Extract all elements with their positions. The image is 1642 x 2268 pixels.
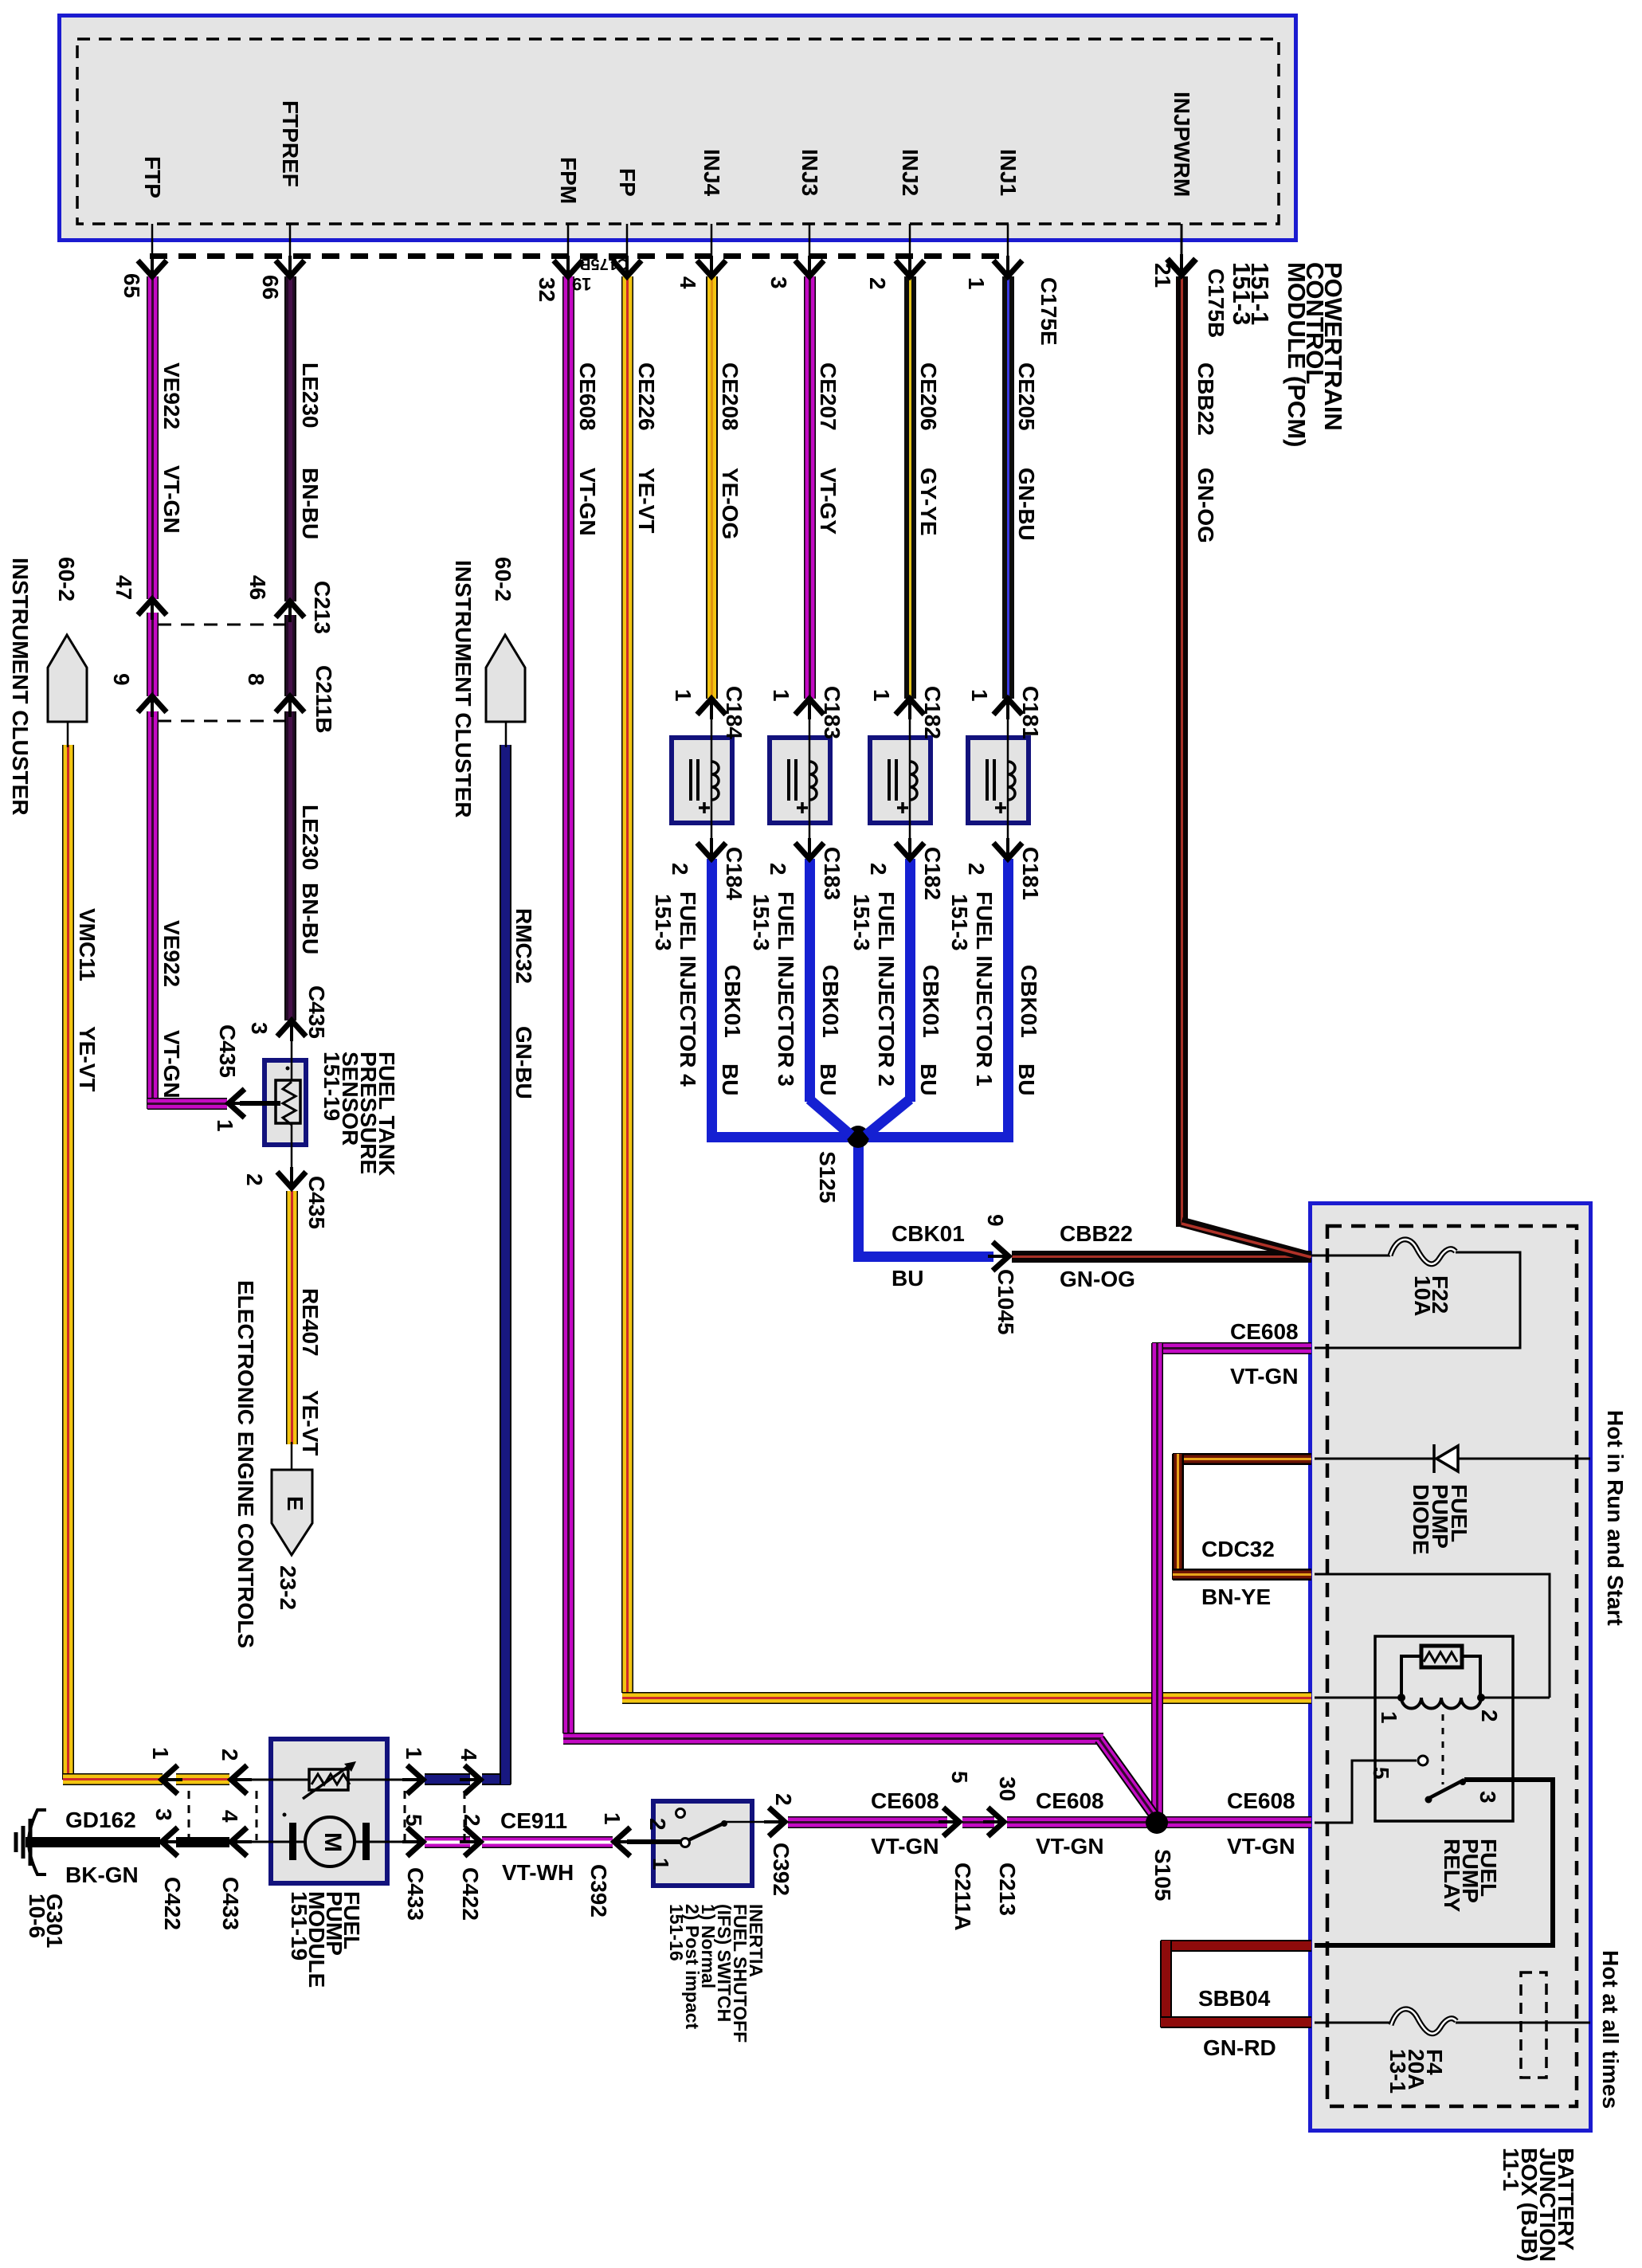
label injector 2 page 151-3 — [852, 894, 870, 951]
connector C392 pin 1 arrow — [614, 1827, 630, 1856]
label BJB caption — [1502, 2148, 1575, 2262]
sensor pin 3 arrow C435 — [277, 1020, 306, 1036]
inertia fuel shutoff IFS switch box — [651, 1799, 754, 1888]
splice S105 — [1146, 1812, 1168, 1834]
label wire label CBK01 — [892, 1225, 965, 1243]
label label 60-2 right — [494, 557, 511, 601]
label wire label BK-GN — [65, 1866, 139, 1884]
BJB CE226 to relay coil pin1 line — [1315, 1697, 1401, 1699]
label pin 9 C1045 — [986, 1214, 1004, 1227]
label label hot at all times — [1601, 1950, 1619, 2109]
label pin 65 — [123, 273, 140, 298]
label injector 4 pin 2 — [671, 863, 688, 875]
wire CBK01 BU injector 4 — [707, 859, 717, 1142]
fuel level sender symbol — [309, 1769, 348, 1790]
label wire label CE608 FPM — [578, 362, 596, 431]
wire CBK01 BU injector 2 — [905, 859, 915, 1102]
connector C422 pin 4 arrow — [464, 1765, 480, 1794]
wire CE608 VT-GN from F22 out of BJB — [1152, 1342, 1311, 1354]
label wire label VT-GN b — [1036, 1838, 1104, 1855]
relay actuation dashed link — [1442, 1714, 1444, 1784]
instrument cluster pentagon 2 — [486, 635, 525, 722]
label injector 1 wire CBK01 — [1020, 965, 1037, 1038]
label pin 66 — [261, 275, 279, 300]
connector C211A pin 5 arrow — [943, 1808, 959, 1836]
label injector 3 wire BU — [819, 1063, 837, 1095]
label connector C422 right — [461, 1867, 479, 1921]
label pump pin 1 — [405, 1747, 422, 1760]
label wire label CE207 — [819, 362, 837, 431]
connector C213 pin 47 arrow — [138, 599, 167, 615]
label relay pin 2 — [1480, 1710, 1498, 1722]
label pump pin 2 — [463, 1814, 480, 1827]
label wire label BU — [892, 1270, 923, 1287]
label wire label YE-VT VMC11 — [78, 1026, 96, 1091]
label ground G301 label — [28, 1894, 63, 1949]
label injector 2 pin 1 — [872, 689, 890, 702]
sensor pin 2 arrow C435 — [277, 1172, 306, 1188]
label connector C433 label — [221, 1877, 239, 1930]
connector C1045 pin 9 arrow — [993, 1242, 1009, 1271]
relay pin 5 feed — [1315, 1761, 1417, 1823]
fuel injector 4 pin 2 arrow — [697, 843, 726, 859]
label connector C433 right — [406, 1867, 424, 1921]
battery feed dashed box — [1521, 1972, 1546, 2078]
wire CBK01 BU from S125 down — [853, 1135, 864, 1252]
label injector 3 connector C183 top — [823, 686, 841, 739]
label pin 2 C435 — [245, 1173, 263, 1186]
label wire label VT-WH — [502, 1864, 574, 1882]
label wire label VE922 lower — [163, 920, 180, 987]
fuel injector 4 coil symbol — [689, 759, 692, 801]
wire CE226 YE-VT (FP) horizontal to BJB — [622, 1692, 1311, 1704]
label connector C1045 — [997, 1269, 1014, 1335]
label wire label CE206 — [919, 362, 937, 431]
label connector C211B — [315, 665, 332, 734]
BJB F22 circuit lines — [1311, 1255, 1390, 1257]
label fuel pump relay label — [1443, 1839, 1498, 1912]
label label electronic engine controls — [237, 1280, 254, 1648]
wire RE407 YE-VT sensor to EEC — [286, 1191, 298, 1444]
fuel injector 1 pin 2 arrow — [993, 843, 1022, 859]
fuel injector 3 box — [767, 735, 833, 825]
fuel injector 4 pin 1 arrow — [697, 699, 726, 715]
label pin 2 C392 — [774, 1793, 792, 1806]
label injector 2 connector C182 top — [923, 686, 941, 739]
label wire label CBB22 — [1197, 362, 1214, 436]
label PCM pin INJ4 — [703, 149, 720, 196]
label injector 1 pin 2 — [967, 863, 985, 875]
wire CE226 YE-VT (FP) vertical — [621, 276, 633, 1693]
label wire label RMC32 — [515, 908, 532, 984]
label PCM pin FTP — [143, 156, 161, 198]
fuel injector 1 box — [966, 735, 1031, 825]
label wire label CE911 — [500, 1812, 567, 1830]
label pin 3 C435 — [250, 1022, 268, 1035]
label injector 2 name — [877, 891, 895, 1087]
label wire label RE407 — [301, 1288, 319, 1357]
wire CBB22 GN-OG horizontal C1045 to BJB — [1012, 1251, 1311, 1263]
label fuel pump diode label — [1411, 1484, 1468, 1555]
wire CE608 VT-GN (FPM) vertical — [562, 276, 574, 1733]
label connector C175B — [1207, 268, 1225, 338]
label injector 1 wire BU — [1017, 1063, 1035, 1095]
wire GD162 BK-GN ground — [25, 1837, 160, 1847]
label pin 5 C211A — [950, 1771, 968, 1784]
label pin 2 C433 — [221, 1749, 238, 1761]
label wire label VE922 — [163, 362, 180, 429]
label wire label VT-GY — [819, 468, 837, 535]
label wire label CDC32 — [1201, 1541, 1275, 1558]
label PCM pin INJ2 — [901, 149, 919, 196]
label splice S105 label — [1154, 1849, 1171, 1901]
label wire label GN-BU — [1017, 468, 1035, 541]
wire CBB22 GN-OG diagonal into BJB — [1182, 1222, 1311, 1257]
label injector 1 page 151-3 — [950, 894, 968, 951]
wire to E pentagon — [291, 1442, 293, 1472]
dashed link C213 — [158, 624, 285, 626]
fuel injector 4 internal wire — [711, 712, 713, 845]
wire CDC32 BN-YE loop — [1173, 1453, 1311, 1465]
pump motor feed lines — [244, 1841, 306, 1843]
fuel injector 3 pin 1 arrow — [795, 699, 824, 715]
label connector C392 — [590, 1864, 607, 1917]
relay coil — [1401, 1698, 1481, 1709]
connector C422 pin 1 arrow — [162, 1765, 178, 1794]
fuel injector 2 internal wire — [909, 712, 911, 845]
label PCM pin FPM — [559, 157, 577, 204]
fuel injector 2 pin 1 arrow — [895, 699, 924, 715]
label injector 4 pin 1 — [674, 689, 692, 702]
label connector C392 right — [772, 1843, 790, 1896]
label IFS position 1 — [652, 1858, 669, 1870]
label wire label GY-YE — [919, 468, 937, 536]
label sensor caption — [323, 1052, 396, 1176]
label wire label YE-OG — [721, 468, 739, 539]
connector C433 pin 2 arrow — [231, 1765, 247, 1794]
connector C211B pin 8 arrow — [276, 696, 304, 712]
label connector C435 top — [308, 985, 325, 1039]
label connector C213 — [313, 581, 331, 634]
label wire label YE-VT RE407 — [301, 1390, 319, 1455]
label wire label CE205 — [1017, 362, 1035, 431]
label injector 2 wire CBK01 — [922, 965, 939, 1038]
BJB CDC32 to relay coil line — [1315, 1574, 1550, 1698]
label wire label CE608 a — [871, 1792, 939, 1810]
fuel injector 3 pin 2 arrow — [795, 843, 824, 859]
label PCM pin INJ1 — [999, 149, 1017, 196]
connector C213 pin 30 arrow — [988, 1808, 1004, 1836]
label wire label VMC11 — [78, 908, 96, 981]
connector C433 C422 dashed lines right — [404, 1791, 406, 1840]
PCM pin stubs — [151, 224, 154, 263]
ground G301 symbol — [29, 1819, 33, 1866]
label injector 1 name — [975, 891, 993, 1087]
label wire label VT-GN FPM — [578, 468, 596, 536]
connector C433 pin 4 arrow — [231, 1827, 247, 1856]
label injector 3 pin 2 — [769, 863, 786, 875]
wire CE608 VT-GN IFS to S105 to BJB — [788, 1816, 947, 1828]
label wire label GN-OG — [1197, 468, 1214, 543]
fuel pump diode line — [1315, 1458, 1590, 1460]
IFS switch contacts — [676, 1809, 685, 1818]
label wire label GN-OG h — [1060, 1271, 1135, 1288]
label label instrument cluster right — [454, 560, 472, 818]
wire CE207 VT-GY (INJ3) — [804, 276, 816, 699]
label wire label LE230 lower — [301, 805, 319, 871]
label relay pin 5 — [1372, 1767, 1389, 1780]
fuel injector 4 box — [669, 735, 735, 825]
label pin 47 — [115, 575, 132, 600]
label pin 1 C422 — [151, 1747, 169, 1760]
wire CE208 YE-OG (INJ4) — [706, 276, 718, 699]
fuse F22 10A — [1390, 1240, 1456, 1264]
label wire label CBB22 h — [1060, 1225, 1133, 1243]
label wire label VT-GN bjb — [1230, 1368, 1299, 1385]
label pin 4 C433 — [221, 1810, 238, 1823]
label pin 32 — [538, 277, 555, 302]
label wire label CE608 bjb — [1230, 1323, 1299, 1341]
label wire label CE226 — [637, 362, 655, 431]
label IFS position 2 — [649, 1818, 666, 1831]
label wire label VT-GN — [163, 465, 180, 534]
label motor M label — [323, 1832, 341, 1852]
connector C433 pin 1 arrow — [407, 1765, 423, 1794]
label pin 1 C392 — [603, 1812, 621, 1825]
label pin 3 — [770, 276, 787, 289]
connector C211B pin 9 arrow — [138, 696, 167, 712]
label injector 3 wire CBK01 — [821, 965, 839, 1038]
label pin 3 C422 — [155, 1808, 172, 1821]
wire CE608 VT-GN (FPM) horizontal — [563, 1733, 1103, 1745]
label pin 46 — [249, 575, 266, 600]
label injector 4 page 151-3 — [654, 894, 672, 951]
label wire label VT-GN lower — [163, 1030, 180, 1099]
relay pin 3 output — [1315, 1780, 1553, 1945]
fuel injector 1 pin 1 arrow — [993, 699, 1022, 715]
instrument cluster pentagon 1 — [48, 635, 87, 722]
wire VE922 VT-GN horizontal to sensor pin 1 — [147, 1098, 227, 1110]
label wire label BN-YE — [1201, 1588, 1271, 1606]
label injector 4 connector C184 top — [725, 686, 743, 739]
label wire label YE-VT — [637, 468, 655, 533]
label pin 8 — [247, 673, 265, 686]
wire CE205 GN-BU (INJ1) — [1002, 276, 1014, 699]
label wire label LE230 — [301, 362, 319, 429]
wire CBK01 BU injector 2 diagonal — [866, 1099, 910, 1135]
label wire label BN-BU lower — [301, 883, 319, 954]
label fuse F22 label — [1413, 1275, 1448, 1316]
label injector 3 page 151-3 — [752, 894, 770, 951]
label injector 4 name — [679, 891, 696, 1087]
fuse F4 20A — [1391, 2009, 1456, 2034]
connector C433 pin 5 arrow — [407, 1827, 423, 1856]
dashed link C211B — [158, 720, 285, 723]
label wire label GN-BU RMC32 — [515, 1026, 532, 1099]
PCM module box — [57, 14, 1298, 242]
wire CE911 VT-WH pump to IFS — [425, 1836, 470, 1848]
label pin 2 — [868, 277, 886, 290]
connector C175E dashed line — [150, 253, 1000, 259]
label pin 21 — [1154, 263, 1171, 288]
label connector C435 left — [218, 1024, 236, 1078]
label connector C213 b — [998, 1863, 1016, 1916]
wire VMC11 YE-VT from instrument cluster — [62, 745, 74, 1780]
pump module sender feed lines — [244, 1779, 309, 1781]
PCM pin arrows — [138, 260, 167, 276]
label injector 2 pin 2 — [869, 863, 887, 875]
fuel pump relay box — [1375, 1636, 1513, 1821]
BJB F4 circuit line — [1315, 2022, 1391, 2024]
wire VE922 VT-GN (FTP) vertical — [147, 276, 159, 599]
label pin 4 — [679, 276, 696, 289]
label pin 1 C435 — [216, 1119, 233, 1132]
label pin 9 — [112, 673, 130, 686]
label PCM caption — [1232, 262, 1342, 447]
label IFS caption — [668, 1904, 764, 2043]
label wire label CE208 — [721, 362, 739, 431]
wire CBK01 BU injector 3 — [805, 859, 815, 1102]
fuel pump diode symbol — [1432, 1444, 1436, 1473]
label injector 2 wire BU — [919, 1063, 937, 1095]
label wire label VT-GN a — [871, 1838, 939, 1855]
fuel injector 2 coil symbol — [888, 759, 891, 801]
fuel injector 3 internal wire — [809, 712, 811, 845]
splice S125 — [847, 1126, 869, 1148]
label PCM pin INJPWRM — [1173, 92, 1190, 197]
sensor pin 1 arrow C435 — [229, 1089, 245, 1118]
label connector C435 bottom — [308, 1176, 325, 1229]
label injector 3 name — [777, 891, 794, 1087]
label connector C175E — [1040, 277, 1057, 346]
label relay pin 3 — [1479, 1791, 1496, 1804]
label injector 4 wire CBK01 — [723, 965, 741, 1038]
label PCM pin INJ3 — [801, 149, 818, 196]
fuel injector 2 box — [868, 735, 933, 825]
label wire label BN-BU — [301, 468, 319, 539]
label pin 1 — [967, 277, 985, 290]
label pin 19 (flipped) — [572, 275, 591, 292]
connector C422 pin 2 arrow — [464, 1827, 480, 1856]
fuel injector 1 coil symbol — [986, 759, 989, 801]
wire CBK01 BU injector 3 diagonal — [809, 1099, 851, 1135]
wire LE230 BN-BU (FTPREF) vertical — [284, 276, 296, 601]
label label instrument cluster left — [11, 558, 29, 816]
label wire label GN-RD — [1203, 2039, 1276, 2057]
relay resistor — [1401, 1656, 1421, 1695]
label pin 30 C213 — [998, 1776, 1016, 1801]
label label 23-2 — [279, 1565, 296, 1610]
label label 60-2 left — [57, 557, 75, 601]
relay switch blade — [1429, 1780, 1464, 1798]
label label hot in run and start — [1606, 1410, 1624, 1626]
wire CE206 GY-YE (INJ2) — [904, 276, 916, 699]
label pump pin 5 — [405, 1814, 422, 1827]
wire RMC32 GN-BU to instrument cluster — [425, 1773, 470, 1785]
fuel tank pressure sensor symbol — [276, 1080, 300, 1123]
label pump pin 4 — [460, 1749, 477, 1761]
connector C422 pin 3 arrow — [162, 1827, 178, 1856]
fuel tank pressure sensor box — [262, 1058, 308, 1147]
wire CBK01 BU injector 1 — [1003, 859, 1013, 1142]
label injector 1 pin 1 — [970, 689, 988, 702]
label connector C175B at FP (flipped) — [579, 255, 629, 272]
label E pentagon label — [286, 1496, 304, 1511]
fuel pump module box — [268, 1737, 390, 1886]
label PCM pin FTPREF — [281, 100, 299, 187]
wire CBB22 GN-OG (INJPWRM) vertical — [1176, 276, 1188, 1227]
label injector 1 connector C181 bottom — [1021, 847, 1039, 900]
E pentagon electronic engine controls — [272, 1470, 312, 1555]
fuel injector 2 pin 2 arrow — [895, 843, 924, 859]
connector C213 pin 46 arrow — [276, 601, 304, 617]
wire CE608 VT-GN diagonal to S105 — [1099, 1739, 1158, 1820]
wire SBB04 GN-RD loop — [1161, 1940, 1311, 1952]
label wire label SBB04 — [1198, 1990, 1270, 2008]
label injector 4 connector C184 bottom — [725, 847, 743, 900]
label relay pin 1 — [1380, 1711, 1397, 1724]
connector C422 C433 dashed lines left — [188, 1791, 190, 1840]
label injector 1 connector C181 top — [1021, 686, 1039, 739]
label wire label CE608 b — [1036, 1792, 1104, 1810]
label pump module caption — [290, 1891, 360, 1988]
fuel injector 3 coil symbol — [787, 759, 790, 801]
label injector 3 connector C183 bottom — [823, 847, 841, 900]
label splice S125 label — [818, 1151, 836, 1203]
INJPWRM pin 21 arrow — [1167, 259, 1196, 275]
label PCM pin FP — [618, 168, 636, 197]
label wire label GD162 — [65, 1812, 136, 1829]
connector C392 pin 2 arrow — [769, 1808, 785, 1836]
label wire label VT-GN c — [1227, 1838, 1295, 1855]
motor M symbol — [289, 1823, 296, 1860]
label injector 4 wire BU — [721, 1063, 739, 1095]
label connector C422 label — [163, 1877, 181, 1930]
label injector 3 pin 1 — [772, 689, 790, 702]
label injector 2 connector C182 bottom — [923, 847, 941, 900]
label wire label CE608 c — [1227, 1792, 1295, 1810]
label connector C211A — [954, 1863, 971, 1931]
label fuse F4 label — [1389, 2049, 1444, 2094]
fuel injector 1 internal wire — [1007, 712, 1009, 845]
battery junction box BJB — [1308, 1201, 1593, 2133]
